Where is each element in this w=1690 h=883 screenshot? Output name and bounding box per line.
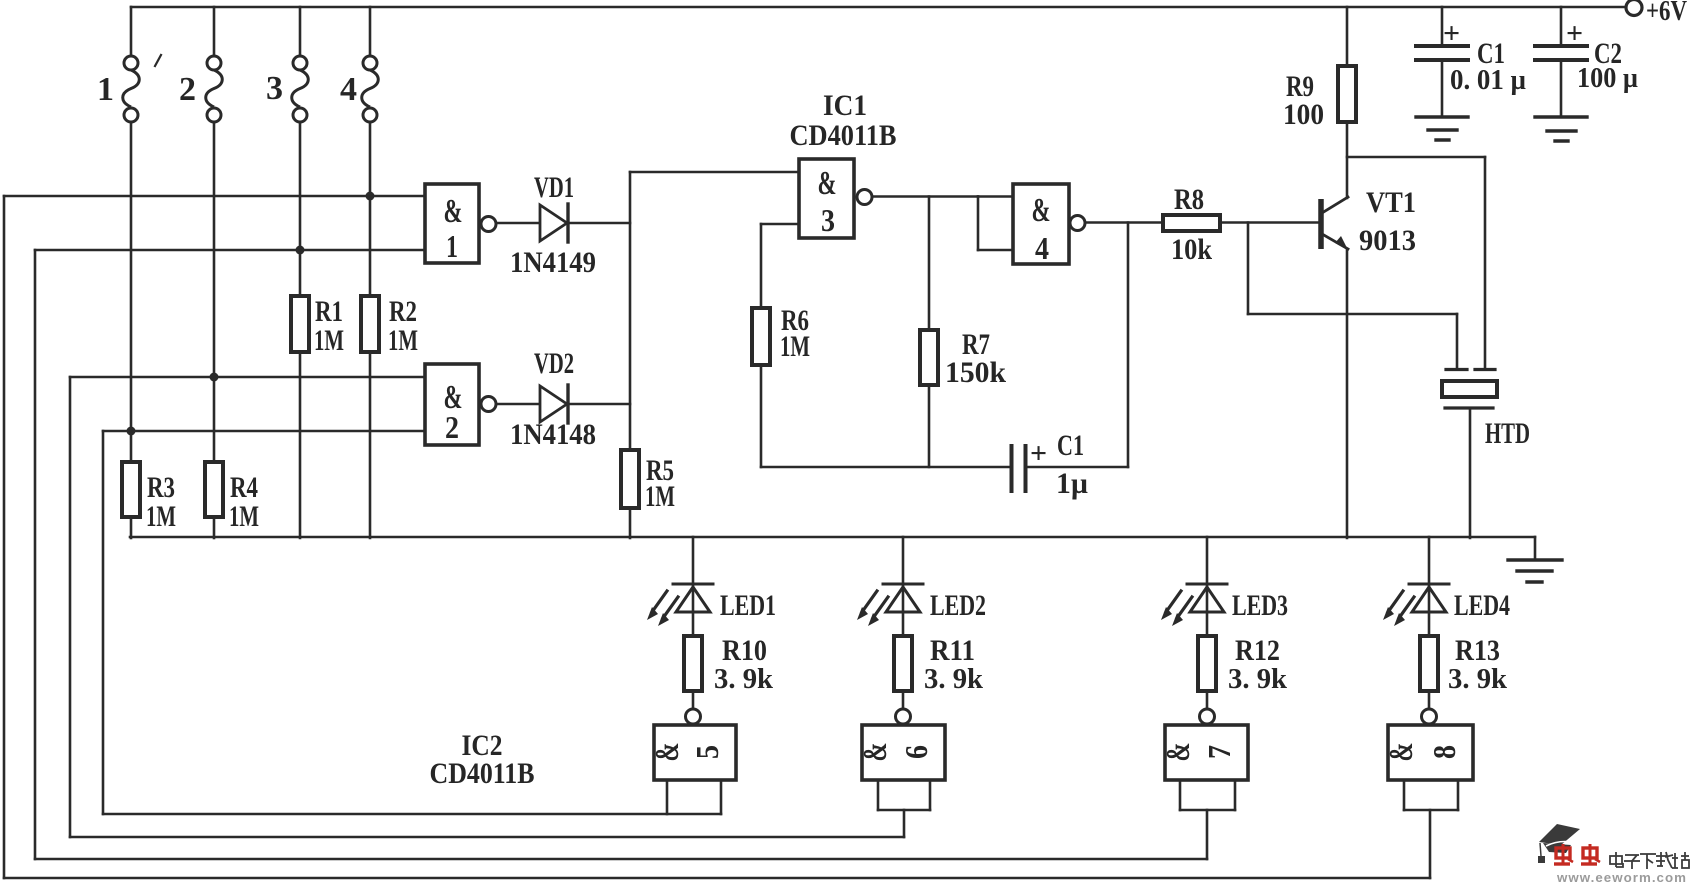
- svg-text:3: 3: [266, 70, 283, 107]
- svg-text:VT1: VT1: [1366, 186, 1416, 219]
- transistor VT1 9013: [1318, 199, 1324, 249]
- resistor R3: [122, 462, 140, 517]
- resistor R10: [684, 636, 702, 691]
- svg-text:8: 8: [1426, 745, 1462, 759]
- resistor R2: [361, 296, 379, 352]
- terminal +6V: [1626, 0, 1642, 16]
- svg-text:3. 9k: 3. 9k: [1448, 664, 1507, 695]
- wire LED4 to R13: [1428, 584, 1431, 636]
- wire collector to HTD right electrode: [1347, 156, 1485, 159]
- led LED1: [673, 583, 713, 586]
- svg-text:6: 6: [898, 745, 934, 759]
- svg-text:&: &: [857, 743, 894, 762]
- gate8 input stubs: [1403, 780, 1406, 810]
- wire emitter vertical to ground rail: [1346, 249, 1349, 538]
- svg-text:LED2: LED2: [930, 589, 986, 622]
- svg-text:&: &: [649, 743, 686, 762]
- resistor R7: [920, 330, 938, 385]
- switch S4: [369, 7, 372, 56]
- svg-text:www.eeworm.com: www.eeworm.com: [1556, 870, 1687, 883]
- nand gate IC2-5: [654, 725, 736, 780]
- capacitor C1 1u: [1010, 446, 1014, 491]
- wire switch4 column down to R2: [369, 122, 372, 296]
- wire LED3 to R12: [1206, 584, 1209, 636]
- svg-text:9013: 9013: [1359, 224, 1416, 257]
- svg-text:C1: C1: [1057, 429, 1084, 462]
- svg-text:VD2: VD2: [534, 347, 574, 380]
- nand gate IC1-1: [425, 184, 479, 263]
- wire VD1 cathode to node E: [566, 222, 630, 225]
- output bubble gate4: [1070, 216, 1085, 231]
- svg-text:10k: 10k: [1171, 233, 1212, 266]
- svg-text:CD4011B: CD4011B: [430, 757, 535, 790]
- wire bus gate6 inputs to node C: [70, 836, 904, 839]
- wire bus gate7 inputs to node B: [35, 858, 1207, 861]
- output bubble gate6: [896, 709, 911, 724]
- output bubble gate3: [857, 190, 872, 205]
- wire base feedback junction vertical: [1247, 223, 1250, 315]
- svg-text:R13: R13: [1455, 634, 1500, 667]
- resistor R9: [1338, 66, 1356, 122]
- nand gate IC1-3: [799, 159, 854, 238]
- gate7 input stubs: [1179, 780, 1182, 810]
- svg-text:R10: R10: [722, 634, 767, 667]
- watermark site name text: [1610, 852, 1623, 867]
- svg-text:1: 1: [97, 71, 114, 108]
- resistor R5: [621, 450, 639, 508]
- svg-text:5: 5: [689, 745, 725, 759]
- scan artifact tick: [155, 55, 161, 66]
- capacitor C1 0.01u: [1441, 7, 1444, 44]
- wire LED1 to R10: [692, 584, 695, 636]
- wire timing node horizontal to C1: [761, 466, 1010, 469]
- wire +6V top supply rail: [131, 6, 1627, 9]
- wire node E vertical: [629, 172, 632, 450]
- output bubble gate8: [1422, 709, 1437, 724]
- wire ground rail: [130, 536, 1535, 539]
- wire gate3 output: [872, 195, 978, 198]
- svg-text:1M: 1M: [146, 500, 176, 533]
- wire gate3 input2 from R6: [761, 223, 799, 226]
- wire switch3 column down to R1: [299, 122, 302, 296]
- svg-text:R12: R12: [1235, 634, 1280, 667]
- svg-text:1M: 1M: [314, 324, 344, 357]
- wire gate1 output to VD1: [496, 222, 539, 225]
- svg-text:1N4149: 1N4149: [510, 246, 596, 279]
- nand gate IC1-2: [425, 364, 479, 445]
- wire base feedback horizontal to HTD: [1248, 313, 1457, 316]
- wire ground rail to LED4: [1428, 537, 1431, 584]
- output bubble gate1: [481, 217, 496, 232]
- wire gate4 output to R8: [1085, 221, 1163, 224]
- svg-text:+: +: [1030, 437, 1047, 470]
- svg-text:4: 4: [1035, 230, 1049, 266]
- wire R1 bottom to ground rail: [299, 352, 302, 538]
- led LED3: [1187, 583, 1227, 586]
- led LED1 emission arrows: [652, 591, 667, 612]
- output bubble gate5: [686, 709, 701, 724]
- svg-text:1M: 1M: [388, 324, 418, 357]
- svg-text:VD1: VD1: [534, 171, 574, 204]
- svg-text:R11: R11: [930, 634, 975, 667]
- switch S1: [130, 7, 133, 56]
- wire ground rail to LED2: [902, 537, 905, 584]
- wire gate8 inputs drop to bus: [1429, 810, 1432, 878]
- watermark graduation cap logo: [1538, 824, 1580, 863]
- svg-text:LED4: LED4: [1454, 589, 1510, 622]
- led LED2 emission arrows: [862, 591, 877, 612]
- capacitor C2 100u: [1560, 7, 1563, 44]
- ground symbol right: [1534, 537, 1537, 559]
- wire R13 to gate8 bubble: [1428, 691, 1431, 709]
- svg-text:3. 9k: 3. 9k: [1228, 664, 1287, 695]
- wire gate4 input jog: [978, 195, 1013, 198]
- svg-text:1N4148: 1N4148: [510, 418, 596, 451]
- wire node B : gate1 input2 horizontal: [35, 249, 425, 252]
- wire node D : gate2 input2 horizontal: [103, 430, 425, 433]
- resistor R6: [752, 308, 770, 365]
- svg-text:100: 100: [1283, 98, 1324, 131]
- svg-text:2: 2: [445, 409, 459, 445]
- wire C1 feedback vertical: [1127, 223, 1130, 468]
- switch S3: [299, 7, 302, 56]
- led LED4: [1409, 583, 1449, 586]
- resistor R13: [1420, 636, 1438, 691]
- nand gate IC2-8: [1388, 725, 1473, 780]
- watermark chongchong red logo text: [1554, 844, 1573, 864]
- wire R6 top vertical: [760, 224, 763, 308]
- wire node D left vertical to gate5 bus: [102, 431, 105, 814]
- svg-text:1: 1: [446, 228, 458, 264]
- svg-text:3. 9k: 3. 9k: [924, 664, 983, 695]
- piezo sounder HTD: [1456, 314, 1459, 368]
- wire R7 top vertical: [928, 197, 931, 331]
- junction dot node line-A / switch4: [366, 192, 375, 201]
- svg-text:+: +: [1566, 17, 1583, 50]
- wire switch1 column down to R3: [130, 122, 133, 462]
- svg-text:0. 01 µ: 0. 01 µ: [1450, 65, 1526, 96]
- nand gate IC1-4: [1013, 184, 1069, 264]
- resistor R8: [1163, 215, 1220, 231]
- wire R12 to gate7 bubble: [1206, 691, 1209, 709]
- gate5 input stubs: [666, 780, 669, 814]
- led LED2: [883, 583, 923, 586]
- svg-text:1M: 1M: [229, 500, 259, 533]
- svg-text:150k: 150k: [945, 356, 1006, 389]
- wire R5 bottom to ground rail: [629, 508, 632, 538]
- wire bus gate8 inputs to node A: [4, 877, 1430, 880]
- svg-text:&: &: [818, 165, 837, 202]
- wire R7 bottom vertical: [928, 385, 931, 467]
- junction dot node line-D / switch1: [127, 427, 136, 436]
- wire R4 bottom to ground rail: [213, 517, 216, 538]
- wire ground rail to LED3: [1206, 537, 1209, 584]
- svg-text:LED3: LED3: [1232, 589, 1288, 622]
- nand gate IC2-6: [862, 725, 945, 780]
- wire R9 top to supply rail: [1346, 7, 1349, 66]
- svg-text:3: 3: [821, 202, 835, 238]
- wire LED2 to R11: [902, 584, 905, 636]
- wire node A left vertical to gate8 bus: [3, 196, 6, 878]
- led LED3 emission arrows: [1166, 591, 1181, 612]
- wire ground rail to LED1: [692, 537, 695, 584]
- wire R6 bottom vertical to timing node: [760, 365, 763, 467]
- wire R11 to gate6 bubble: [902, 691, 905, 709]
- diode VD1: [540, 205, 567, 241]
- gate6 input stubs: [877, 780, 880, 810]
- output bubble gate7: [1200, 709, 1215, 724]
- wire node A : gate1 input1 horizontal: [4, 195, 425, 198]
- ground under C2: [1535, 115, 1587, 118]
- wire switch2 column down to R4: [213, 122, 216, 462]
- svg-text:LED1: LED1: [720, 589, 776, 622]
- wire node B left vertical to gate7 bus: [34, 250, 37, 859]
- wire R3 bottom to ground rail: [130, 517, 133, 538]
- wire node C : gate2 input1 horizontal: [70, 376, 425, 379]
- wire R10 to gate5 bubble: [692, 691, 695, 709]
- wire node E to gate3 input1: [630, 171, 799, 174]
- svg-text:2: 2: [179, 71, 196, 108]
- output bubble gate2: [481, 397, 496, 412]
- svg-text:&: &: [1383, 743, 1420, 762]
- svg-text:100 µ: 100 µ: [1577, 63, 1638, 94]
- wire collector vertical to R9: [1346, 122, 1349, 198]
- wire gate6 inputs drop to bus: [903, 810, 906, 837]
- svg-text:+: +: [1443, 17, 1460, 50]
- svg-text:1M: 1M: [780, 330, 810, 363]
- svg-text:&: &: [1160, 743, 1197, 762]
- svg-text:3. 9k: 3. 9k: [714, 664, 773, 695]
- svg-text:CD4011B: CD4011B: [790, 119, 897, 152]
- nand gate IC2-7: [1165, 725, 1248, 780]
- wire HTD bottom to ground rail: [1469, 409, 1472, 538]
- wire VD2 cathode to node E: [566, 403, 630, 406]
- resistor R1: [291, 296, 309, 352]
- wire bus gate5 inputs to node D: [103, 813, 721, 816]
- wire gate2 output to VD2: [496, 403, 539, 406]
- switch S2: [213, 7, 216, 56]
- wire R2 bottom to ground rail: [369, 352, 372, 538]
- resistor R12: [1198, 636, 1216, 691]
- led LED4 emission arrows: [1388, 591, 1403, 612]
- wire gate7 inputs drop to bus: [1206, 810, 1209, 859]
- svg-text:IC1: IC1: [823, 89, 867, 122]
- svg-text:&: &: [444, 193, 463, 230]
- junction dot node line-C / switch2: [210, 373, 219, 382]
- svg-text:1µ: 1µ: [1056, 467, 1088, 500]
- resistor R4: [205, 462, 223, 517]
- wire C1 right plate to feedback vertical: [1027, 466, 1129, 469]
- ground under C1: [1416, 115, 1468, 118]
- svg-text:4: 4: [340, 71, 357, 108]
- junction dot node line-B / switch3: [296, 246, 305, 255]
- svg-text:7: 7: [1201, 745, 1237, 759]
- svg-text:1M: 1M: [645, 480, 675, 513]
- svg-text:R8: R8: [1174, 183, 1204, 216]
- wire R8 to VT1 base: [1220, 221, 1318, 224]
- diode VD2: [540, 386, 567, 422]
- wire node C left vertical to gate6 bus: [69, 377, 72, 837]
- resistor R11: [894, 636, 912, 691]
- svg-text:+6V: +6V: [1646, 0, 1687, 27]
- svg-text:HTD: HTD: [1485, 417, 1530, 450]
- svg-text:&: &: [1032, 192, 1051, 229]
